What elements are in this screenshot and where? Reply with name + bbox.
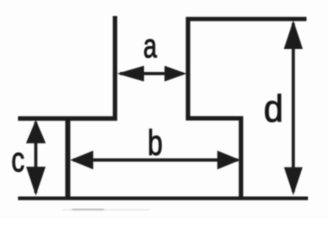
profile: top line: [186, 17, 307, 21]
dimension a arrow line: [120, 72, 183, 75]
profile: left notch wall: [18, 16, 115, 119]
dimension d arrow line: [292, 23, 295, 192]
dimension c up arrowhead: [26, 120, 46, 143]
svg-text:d: d: [264, 88, 284, 130]
profile: bottom line: [18, 196, 308, 200]
svg-text:a: a: [143, 28, 157, 66]
dimension c down arrowhead: [26, 167, 45, 196]
profile: right notch wall and right step: [188, 17, 241, 198]
dimension c arrow line: [34, 122, 37, 193]
dimension d up arrowhead: [284, 20, 303, 49]
dimension a right arrowhead: [165, 66, 187, 82]
svg-text:c: c: [11, 140, 24, 179]
dimension b right arrowhead: [217, 151, 240, 170]
scan artifact faint line below bottom: [72, 209, 104, 211]
profile: left lower wall: [65, 119, 70, 199]
svg-text:b: b: [148, 122, 163, 163]
dimension d down arrowhead: [284, 167, 303, 195]
dimension b left arrowhead: [70, 151, 93, 170]
dimension a left arrowhead: [117, 66, 144, 82]
dimension b arrow line: [73, 158, 238, 161]
